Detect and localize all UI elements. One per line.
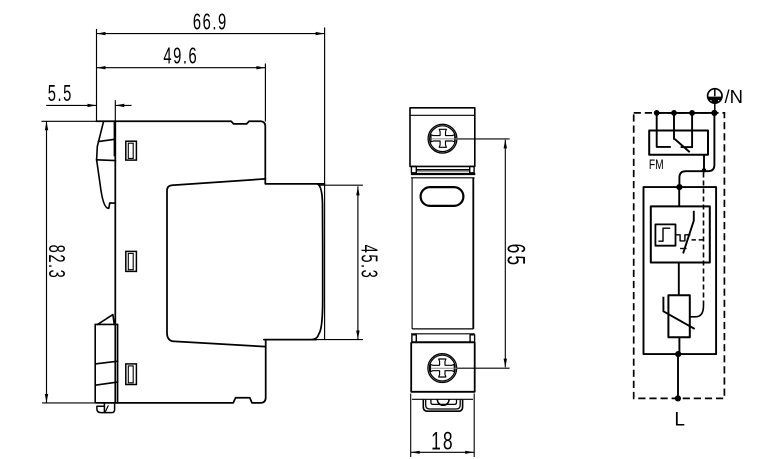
svg-text:L: L [674,410,685,431]
svg-text:5.5: 5.5 [48,82,73,107]
svg-text:/N: /N [725,86,744,107]
svg-text:65: 65 [502,244,531,268]
svg-text:45.3: 45.3 [355,245,380,280]
svg-text:49.6: 49.6 [163,45,198,70]
svg-text:66.9: 66.9 [193,11,228,36]
svg-text:82.3: 82.3 [43,245,68,280]
svg-text:18: 18 [431,426,455,455]
svg-text:FM: FM [649,157,664,173]
